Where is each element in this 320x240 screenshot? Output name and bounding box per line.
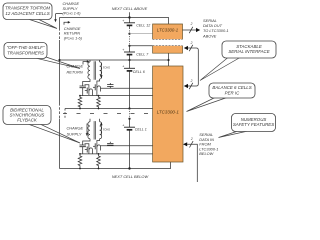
node r3 bottom [79,168,81,170]
node r2 bottom [98,108,100,110]
svg-text:CELL 12: CELL 12 [136,23,150,27]
svg-text:2: 2 [190,22,193,26]
wire secondary bottom unit1 [83,79,90,86]
label SERIAL DATA OUT [202,18,229,39]
wire gate/drive to IC unit1 [101,87,153,89]
svg-text:CELL 7: CELL 7 [136,52,149,56]
wire stub to next cell above [129,12,131,17]
wire source rail to IC unit1 [80,95,153,97]
svg-text:(PCHG 1-6): (PCHG 1-6) [63,12,82,16]
svg-text:RETURN: RETURN [67,69,83,74]
svg-text:LTC3300-1: LTC3300-1 [157,28,179,33]
callout BALANCE 6 CELLS PER IC [187,83,256,112]
wire gate/drive to IC unit2 [101,145,153,147]
wire stack dotted 8..7 [129,34,131,46]
transistor Q1a [85,85,93,95]
callout STACKABLE SERIAL INTERFACE [200,41,276,81]
node r1 bottom [79,108,81,110]
svg-text:NEXT CELL ABOVE: NEXT CELL ABOVE [112,6,148,11]
label CHARGE SUPPLY unit2 [67,124,89,137]
svg-text:+: + [122,123,124,127]
svg-text:ICHG: ICHG [103,65,110,69]
capacitor C1b [107,83,113,88]
node r4 top [98,153,100,155]
wire unit1 top rail [60,59,169,61]
svg-text:CHARGE: CHARGE [67,126,84,131]
svg-text:+: + [122,48,124,52]
wire left bus dash-dot tear segment upper [59,28,61,40]
label CHARGE RETURN inner top-left [64,21,83,41]
wire top charge-return rail [60,18,169,25]
wire bottom rail [60,162,171,169]
svg-text:CELL 1: CELL 1 [135,128,147,132]
svg-text:12 ADJACENT CELLS: 12 ADJACENT CELLS [5,11,49,16]
wire serial data out to above [183,22,201,33]
op-amp U1 upper LTC3300-1 (torn block bottom part) [153,46,183,54]
transistor Q2a [85,144,93,154]
battery CELL 1 [122,119,135,169]
node stack cell6 bottom [128,107,130,109]
svg-text:+: + [122,19,124,23]
node r3 top [79,153,81,155]
wire left bus dash-dot tear segment lower [59,103,61,119]
wire serial link between ICs [184,41,199,89]
svg-text:(PCHG 1-6): (PCHG 1-6) [64,37,83,41]
svg-text:TRANSFORMERS: TRANSFORMERS [7,50,44,55]
battery CELL 6 [122,60,135,109]
wire dashed chain to next unit [64,109,66,119]
svg-text:SERIAL INTERFACE: SERIAL INTERFACE [228,49,269,54]
svg-text:+: + [122,65,124,69]
wire pin cell12- to IC (gray) [130,33,153,35]
transistor Q2b [93,142,101,154]
svg-text:LTC3300-1: LTC3300-1 [157,110,180,115]
wire left charge-return bus (solid top) [59,18,61,29]
node r2 top [98,95,100,97]
wire left bus bottom [59,119,61,169]
node stack mid group [128,59,130,61]
wire left bus middle [59,40,61,103]
svg-text:2: 2 [190,79,193,83]
svg-text:SUPPLY: SUPPLY [63,6,78,11]
capacitor C2a [80,145,86,154]
svg-text:ABOVE: ABOVE [202,33,217,38]
wire serial data in from below [183,137,197,182]
node stack pin b [128,45,130,47]
svg-text:SAFETY FEATURES: SAFETY FEATURES [233,122,274,127]
battery CELL 7 [122,46,135,60]
node stack cell1 top [128,118,130,120]
wire source rail to IC unit2 [80,153,153,155]
svg-text:ICHG: ICHG [103,127,110,131]
node stack bottom rail [128,167,130,169]
transistor Q1b [93,83,101,95]
resistor R1b [97,96,101,109]
svg-text:SUPPLY: SUPPLY [67,131,82,136]
label SERIAL DATA IN [199,132,218,156]
op-amp U2 lower LTC3300-1 [153,66,183,162]
wire stack dotted 12..8 [129,28,131,34]
wire primary bottom unit2 [97,139,100,143]
node unit1 on bus [58,59,60,61]
callout OFF-THE-SHELF TRANSFORMERS [4,43,80,69]
wire upper IC V- stub to mid-stack node [168,53,170,66]
wire secondary bottom unit2 [83,139,90,145]
capacitor C1a [80,86,86,96]
battery CELL 12 [122,18,135,29]
label ICHG arrow up [100,122,110,135]
callout NUMEROUS SAFETY FEATURES [219,114,276,138]
capacitor C2b [107,142,113,146]
svg-text:FLYBACK: FLYBACK [17,118,38,123]
op-amp U1 upper LTC3300-1 (torn block top part) [153,24,183,39]
resistor R1a [78,96,82,109]
svg-text:BELOW: BELOW [199,151,213,156]
node r1 top [79,95,81,97]
wire primary bottom unit1 [97,79,100,83]
svg-text:2: 2 [190,41,193,45]
svg-text:2: 2 [190,137,193,141]
label CHARGE SUPPLY top-left [54,1,81,22]
wire stack dotted 5..2 [129,109,131,119]
svg-text:CELL 6: CELL 6 [133,70,145,74]
svg-text:PER IC: PER IC [225,90,240,95]
wire unit1 bottom rail [65,108,153,110]
callout TRANSFER TO/FROM 12 ADJACENT CELLS [3,3,57,29]
wire pin cell7+ to IC [130,45,153,47]
node r4 bottom [98,168,100,170]
label ICHG arrow down [100,63,110,78]
node top rail / stack junction [128,16,130,18]
transformer T1 [88,60,102,80]
svg-text:NEXT CELL BELOW: NEXT CELL BELOW [112,174,149,179]
node stack pin a [128,33,130,35]
svg-text:RETURN: RETURN [64,31,80,36]
label CHARGE RETURN unit1 [67,60,90,74]
tear line lower [63,113,150,115]
node upper IC V- junction [167,59,169,61]
resistor R2b [97,154,101,169]
transformer T2 [88,119,102,140]
resistor R2a [78,154,82,169]
callout BIDIRECTIONAL SYNCHRONOUS FLYBACK [3,106,80,144]
